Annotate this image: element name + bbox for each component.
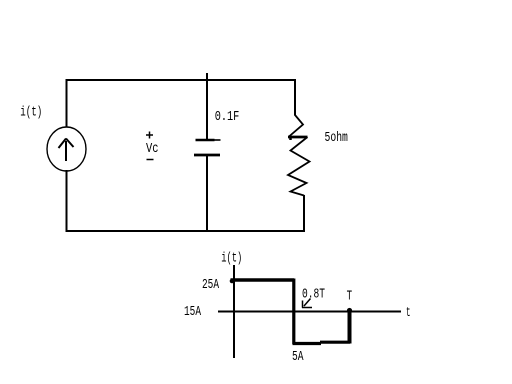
current source I1 bbox=[47, 127, 86, 171]
svg-text:Vc: Vc bbox=[146, 142, 159, 157]
wire top bbox=[66, 79, 296, 81]
wire middle lower bbox=[206, 156, 208, 231]
svg-text:i(t): i(t) bbox=[20, 106, 42, 121]
wire left lower bbox=[66, 170, 68, 232]
waveform 25A level bbox=[231, 278, 295, 281]
waveform rise at T bbox=[348, 311, 352, 344]
svg-text:t: t bbox=[406, 306, 411, 321]
label minus bbox=[147, 159, 154, 161]
waveform 5A level bbox=[293, 342, 351, 343]
node dot at T bbox=[347, 308, 352, 313]
label plus bbox=[146, 132, 153, 139]
capacitor C1 bbox=[194, 140, 221, 155]
svg-text:0.1F: 0.1F bbox=[215, 110, 240, 125]
svg-text:5A: 5A bbox=[292, 350, 304, 365]
resistor R1 bbox=[288, 115, 310, 196]
svg-text:15A: 15A bbox=[184, 305, 202, 320]
wire left upper bbox=[66, 79, 68, 128]
waveform drop at 0.8T bbox=[292, 279, 295, 345]
svg-text:T: T bbox=[347, 290, 353, 305]
wire bottom bbox=[66, 230, 306, 232]
wire right lower bbox=[303, 195, 305, 232]
graph horizontal axis bbox=[218, 311, 401, 313]
svg-text:0.8T: 0.8T bbox=[302, 288, 325, 303]
svg-text:25A: 25A bbox=[202, 278, 220, 293]
svg-text:i(t): i(t) bbox=[221, 252, 242, 267]
arrow to 0.8T point bbox=[302, 299, 312, 308]
wire middle upper bbox=[206, 73, 208, 140]
wire right upper bbox=[294, 79, 296, 116]
graph vertical axis bbox=[233, 265, 235, 358]
svg-text:5ohm: 5ohm bbox=[325, 131, 348, 146]
